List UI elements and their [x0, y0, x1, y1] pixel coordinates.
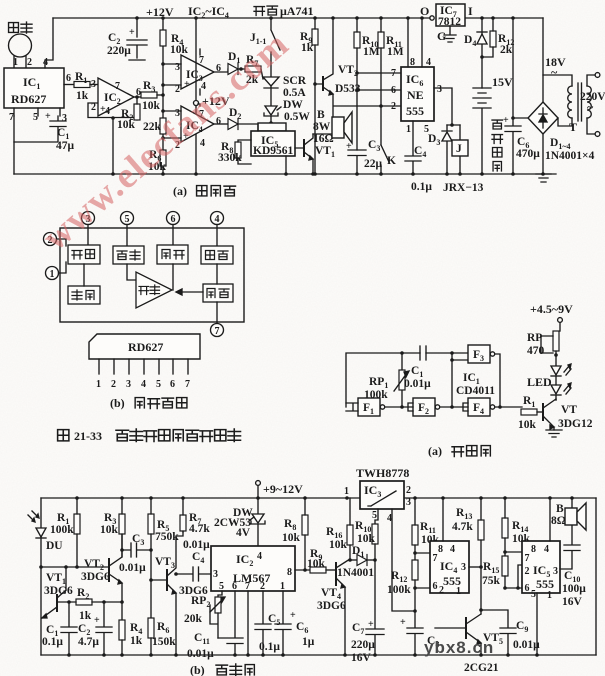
IC7 7812 regulator [420, 4, 473, 28]
svg-text:8: 8 [438, 544, 443, 555]
svg-text:0.5W: 0.5W [284, 111, 310, 123]
wire +12V top rail [53, 16, 543, 20]
amplifier triangle (fang da) [136, 272, 172, 308]
svg-text:4V: 4V [236, 527, 251, 539]
nand gate F3 [468, 345, 495, 363]
svg-text:5: 5 [156, 379, 161, 390]
svg-text:3: 3 [213, 569, 218, 580]
svg-text:1M: 1M [363, 46, 380, 58]
svg-text:DU: DU [46, 540, 63, 552]
ground symbol mains [536, 174, 551, 182]
resistor R5 750k [148, 498, 179, 618]
svg-text:3: 3 [62, 113, 67, 124]
svg-text:0.1μ: 0.1μ [259, 641, 280, 653]
capacitor C11 0.01u [187, 591, 243, 660]
speaker B 8ohm (rx) [551, 498, 586, 530]
svg-text:10k: 10k [170, 44, 189, 56]
battery 15V backup [473, 57, 513, 174]
svg-text:4: 4 [426, 57, 431, 68]
resistor R7 2k [245, 54, 263, 86]
svg-text:4: 4 [141, 379, 146, 390]
svg-text:I: I [468, 4, 473, 18]
svg-text:100μ: 100μ [562, 583, 586, 595]
caption (a) circuit diagram [173, 184, 236, 198]
capacitor C3 22u [346, 139, 383, 174]
svg-text:10k: 10k [282, 532, 301, 544]
svg-text:10k: 10k [100, 524, 119, 536]
transistor VT2 (rx) 3DG6 [81, 535, 122, 620]
op-amp IC2 [91, 78, 141, 117]
package pins 1-7 [96, 359, 190, 390]
ground pin G of IC7 [437, 26, 456, 43]
svg-text:O: O [420, 4, 429, 18]
svg-text:KD9561: KD9561 [253, 145, 294, 157]
wire 567 pin7 ground [247, 591, 249, 655]
capacitor C7 220u 16V [351, 560, 384, 664]
svg-text:0.1μ: 0.1μ [411, 181, 432, 193]
svg-text:1M: 1M [387, 46, 404, 58]
svg-text:6: 6 [171, 214, 176, 225]
wire transmitter top [346, 351, 470, 407]
svg-text:16V: 16V [562, 596, 583, 608]
svg-text:NE: NE [407, 88, 424, 102]
resistor R14 10k [502, 498, 531, 556]
svg-text:3: 3 [437, 84, 442, 95]
svg-text:6: 6 [391, 85, 396, 96]
svg-text:+: + [346, 141, 352, 152]
resistor R12 100k (rx) [387, 560, 418, 611]
IC6 NE555 [391, 57, 442, 135]
svg-text:5: 5 [531, 589, 536, 600]
diode D3 [428, 125, 452, 174]
resistor R9 10k (rx) [307, 548, 336, 573]
node pin5 circle [121, 212, 134, 247]
zener DW 2CW53 4V [214, 498, 265, 546]
svg-text:4: 4 [257, 551, 262, 562]
diode D1 [228, 51, 245, 75]
wire pin7 to ground [13, 116, 15, 174]
svg-text:0.01μ: 0.01μ [119, 562, 146, 574]
relay J JRX-13 [452, 125, 468, 174]
resistor R4 10k [160, 30, 189, 56]
svg-text:0.5A: 0.5A [283, 87, 306, 99]
svg-text:10k: 10k [117, 119, 136, 131]
svg-text:0.01μ: 0.01μ [513, 639, 540, 651]
ground transmitter [546, 430, 562, 437]
wire IC5 pin5 ground [536, 593, 538, 655]
svg-text:4.7k: 4.7k [452, 521, 473, 533]
svg-text:1: 1 [344, 486, 349, 497]
svg-text:3DG6: 3DG6 [44, 585, 73, 597]
diode D1 1N4001 (rx) [337, 545, 375, 579]
svg-text:21-33: 21-33 [74, 429, 102, 443]
node pin6 circle [167, 212, 180, 246]
svg-text:8Ω: 8Ω [551, 515, 566, 527]
svg-text:J: J [456, 143, 462, 155]
transistor VT4 3DG6 [317, 559, 350, 655]
transistor VT5 2CG21 [435, 614, 503, 674]
transistor VT1 [295, 134, 335, 174]
svg-text:1: 1 [456, 586, 461, 597]
node pin4 circle [211, 212, 224, 247]
IC4 555 [430, 498, 469, 597]
wire IC4 pin3 [469, 565, 483, 569]
svg-text:μA741: μA741 [280, 4, 313, 18]
resistor R12 2k [480, 18, 514, 59]
wire IC5 pins 7 2 6 [503, 550, 522, 590]
svg-text:4.7k: 4.7k [189, 523, 210, 535]
svg-text:TWH8778: TWH8778 [356, 466, 409, 480]
wire IC5 to ground [285, 156, 287, 174]
pin numbers 1 2 4 [13, 57, 48, 68]
speaker B [313, 112, 352, 143]
svg-text:10k: 10k [307, 558, 326, 570]
label 220V mains [580, 91, 605, 114]
svg-text:+: + [184, 79, 190, 90]
wire F3 output to F4 output node [495, 354, 522, 409]
resistor R3 10k [141, 80, 165, 112]
wire regulator to delay [216, 264, 218, 284]
svg-text:5: 5 [125, 214, 130, 225]
svg-text:0.01μ: 0.01μ [404, 378, 431, 390]
svg-text:1: 1 [50, 269, 55, 280]
label B 8W [313, 109, 331, 133]
svg-text:1N4001×4: 1N4001×4 [545, 150, 595, 162]
svg-text:3DG6: 3DG6 [317, 600, 346, 612]
switch K [381, 145, 396, 174]
nand gate F2 [385, 398, 440, 416]
wire delay to pin7 [216, 302, 218, 324]
resistor R16 10k [326, 498, 353, 562]
svg-text:3: 3 [91, 79, 96, 90]
node +9~12V supply [256, 481, 303, 498]
svg-text:5: 5 [33, 112, 38, 123]
caption (a) transmitter [428, 444, 490, 458]
block diagram outer frame [60, 228, 244, 322]
wire R1 to IC2 [90, 84, 98, 86]
caption (b) receiver [190, 663, 254, 676]
svg-text:+: + [503, 115, 509, 126]
IC3 TWH8778 [344, 481, 411, 524]
wire delay input arrow [176, 289, 203, 295]
wire IC3 pin4 output [392, 509, 417, 613]
capacitor C2 4.7u (rx) [78, 602, 112, 657]
svg-text:+: + [100, 104, 106, 115]
wire F3 F4 input tie [450, 353, 454, 409]
svg-text:4: 4 [105, 106, 110, 117]
svg-text:6: 6 [170, 379, 175, 390]
svg-text:1: 1 [13, 57, 18, 68]
IC2 LM567 [211, 546, 295, 592]
wire bus x163 [162, 18, 164, 174]
svg-text:+: + [129, 27, 135, 38]
resistor R3 10k (rx) [100, 498, 125, 557]
wire 18V line [543, 18, 566, 102]
transistor VT2 D533 [315, 18, 361, 117]
potentiometer RP1 100k [364, 353, 409, 407]
svg-text:1μ: 1μ [302, 636, 315, 648]
svg-text:470μ: 470μ [516, 148, 540, 160]
caption (b) block diagram [110, 396, 187, 410]
wire detect to amp [127, 264, 136, 280]
svg-text:LED: LED [527, 375, 552, 389]
svg-text:~: ~ [587, 100, 594, 114]
svg-text:22μ: 22μ [364, 158, 383, 170]
svg-text:1: 1 [96, 379, 101, 390]
wire right edge [595, 498, 597, 655]
node pin2 circle [44, 233, 67, 247]
wire RF to oscillator [83, 264, 85, 286]
svg-text:10k: 10k [518, 419, 537, 431]
wire IC4 inputs [161, 109, 181, 140]
svg-text:1k: 1k [130, 635, 143, 647]
capacitor C5 0.1u (rx) [255, 591, 280, 655]
svg-text:16Ω: 16Ω [313, 133, 334, 145]
wire IC2 feedback loop [88, 103, 137, 174]
svg-text:7: 7 [185, 379, 190, 390]
svg-text:3: 3 [461, 562, 466, 573]
resistor R1 1k [74, 71, 90, 102]
wire 555 pin7 pin6 pin2 [334, 73, 401, 106]
svg-text:2: 2 [391, 101, 396, 112]
resistor R8 10k (rx) [282, 498, 308, 570]
block RF (she pin) [68, 245, 100, 264]
svg-text:16V: 16V [351, 652, 372, 664]
svg-text:10k: 10k [142, 100, 161, 112]
transistor VT3 3DG6 [149, 532, 208, 655]
capacitor C9 0.01u [479, 608, 540, 655]
svg-text:0.01μ: 0.01μ [187, 648, 214, 660]
svg-text:~: ~ [551, 65, 558, 79]
svg-text:SCR: SCR [283, 75, 307, 87]
resistor R10 1M [354, 18, 380, 150]
resistor R2 1k (rx) [57, 587, 124, 622]
svg-text:ybx8.cn: ybx8.cn [424, 638, 494, 657]
svg-text:VT: VT [561, 404, 577, 416]
svg-text:7: 7 [525, 553, 530, 564]
pin 6 stub [64, 73, 74, 85]
antenna [9, 34, 32, 68]
svg-text:4: 4 [544, 544, 549, 555]
svg-text:75k: 75k [482, 575, 501, 587]
wire left edge [40, 498, 42, 655]
capacitor C4 0.1u [405, 121, 432, 193]
svg-text:RP: RP [527, 332, 542, 344]
node +12V mid terminal [194, 18, 230, 174]
svg-text:6: 6 [66, 73, 71, 84]
watermark elecfans diagonal [35, 23, 494, 657]
resistor R4 1k (rx) [119, 620, 143, 655]
svg-text:7: 7 [391, 68, 396, 79]
svg-text:100k: 100k [387, 584, 411, 596]
svg-text:B: B [317, 109, 325, 121]
svg-text:220μ: 220μ [351, 639, 375, 651]
svg-text:8: 8 [410, 57, 415, 68]
svg-text:+9~12V: +9~12V [263, 482, 303, 496]
svg-text:2CG21: 2CG21 [464, 662, 499, 674]
nand gate F1 [346, 398, 385, 416]
svg-text:DW: DW [283, 99, 303, 111]
svg-text:4.7μ: 4.7μ [78, 636, 99, 648]
svg-text:555: 555 [406, 104, 424, 118]
svg-text:3: 3 [406, 497, 411, 508]
svg-text:1k: 1k [79, 610, 92, 622]
RD627 package outline [89, 334, 200, 359]
capacitor C8 [400, 611, 439, 655]
resistor R1 100k (rx) [50, 498, 80, 567]
caption figure 21-33 title [58, 429, 241, 443]
svg-text:(a): (a) [173, 184, 187, 198]
op-amp IC3 [175, 49, 221, 95]
svg-text:7: 7 [433, 553, 438, 564]
bridge rectifier D1-4 [511, 102, 558, 174]
label D1-4 1N4001x4 [545, 137, 595, 162]
wire pin4 to +12V rail [45, 18, 53, 68]
resistor R6 150k [148, 618, 176, 655]
svg-text:IC2~IC4: IC2~IC4 [188, 4, 229, 20]
svg-text:150k: 150k [152, 636, 176, 648]
resistor R10 10k (rx) [355, 509, 378, 562]
label IC1 CD4011 [456, 372, 495, 397]
svg-text:10k: 10k [357, 533, 376, 545]
capacitor C10 100u 16V [560, 525, 586, 608]
svg-text:1: 1 [547, 590, 552, 601]
node pin7 circle [211, 324, 224, 338]
transistor VT1 (rx) 3DG6 [42, 567, 73, 618]
svg-text:+: + [94, 615, 100, 626]
block detect (jian ce) [113, 246, 144, 264]
svg-text:7: 7 [9, 112, 14, 123]
wire 555 pin3 [434, 88, 460, 127]
transformer T [543, 73, 600, 137]
resistor R13 4.7k [452, 498, 484, 614]
LED pair indicator [527, 364, 571, 400]
resistor R2 10k [117, 97, 140, 131]
diode D4 [464, 18, 487, 57]
resistor R7 4.7k (rx) [180, 498, 210, 535]
node IC2 output [134, 95, 141, 99]
capacitor C2 220u [107, 18, 147, 60]
wire receiver top rail [41, 496, 596, 500]
svg-text:(b): (b) [190, 663, 205, 676]
svg-text:CD4011: CD4011 [456, 385, 495, 397]
svg-text:2: 2 [406, 485, 411, 496]
svg-text:+4.5~9V: +4.5~9V [530, 302, 573, 316]
zener DW 0.5W [264, 88, 310, 125]
svg-text:3DG12: 3DG12 [558, 418, 593, 430]
nand gate F4 [440, 398, 495, 416]
label antenna [9, 22, 32, 33]
svg-text:6: 6 [433, 581, 438, 592]
svg-text:330k: 330k [218, 152, 242, 164]
capacitor C3 0.01u (rx) [119, 533, 153, 574]
svg-text:0.01μ: 0.01μ [183, 539, 210, 551]
block delay (yan shi) [203, 284, 233, 302]
svg-text:4: 4 [387, 513, 392, 524]
resistor R9 1k [300, 18, 318, 174]
capacitor C6 470u [503, 18, 540, 174]
wire IC3 inputs [161, 62, 181, 87]
resistor R1 10k (tx) [518, 395, 543, 431]
wire receiver bottom rail [41, 653, 596, 657]
svg-text:G: G [437, 29, 446, 43]
resistor R11 1M [378, 18, 404, 145]
capacitor C1 47u [14, 116, 75, 152]
pins 7 5 3 stubs [9, 108, 67, 124]
block oscillator (zhen dang) [68, 286, 100, 304]
capacitor C1 0.01u (tx) [404, 346, 431, 390]
svg-text:1k: 1k [301, 42, 314, 54]
resistor R11 10k (rx) [412, 498, 440, 560]
node pin1 circle [46, 262, 67, 280]
svg-text:K: K [387, 155, 396, 167]
svg-text:47μ: 47μ [56, 140, 75, 152]
svg-text:+: + [290, 610, 296, 621]
wire 555 pins 8 4 to rail [408, 18, 422, 67]
resistor 22k [143, 118, 166, 134]
svg-text:555: 555 [536, 577, 554, 591]
svg-text:RD627: RD627 [11, 92, 46, 106]
label +4.5~9V [530, 302, 573, 331]
svg-text:+: + [400, 617, 406, 628]
wire limiter to amp output [172, 264, 174, 290]
IC5 555 [522, 498, 560, 601]
svg-text:8: 8 [287, 567, 292, 578]
potentiometer RP2 20k [184, 591, 225, 638]
transistor VT 3DG12 [543, 399, 593, 430]
svg-text:2: 2 [111, 379, 116, 390]
svg-text:1: 1 [406, 124, 411, 135]
svg-text:2: 2 [27, 57, 32, 68]
op-amp IC4 [175, 104, 221, 151]
resistor R15 75k [482, 556, 508, 588]
svg-text:3: 3 [126, 379, 131, 390]
svg-text:(a): (a) [428, 444, 442, 458]
svg-text:10k: 10k [329, 539, 348, 551]
resistor R8 330k [218, 140, 251, 164]
wire 567 pin8 [295, 568, 310, 572]
block limiter (xian fu) [157, 245, 188, 264]
svg-text:15V: 15V [492, 75, 513, 89]
block regulator (wen ya) [201, 246, 233, 264]
svg-text:100k: 100k [364, 389, 388, 401]
svg-text:3: 3 [553, 566, 558, 577]
resistor RP 470 [527, 331, 559, 366]
svg-text:1N4001: 1N4001 [337, 567, 374, 579]
wire IC3 output [214, 69, 228, 72]
capacitor C6 1u (rx) [275, 591, 315, 655]
node pin3 circle [82, 212, 95, 246]
svg-text:3DG6: 3DG6 [81, 571, 110, 583]
wire ground bottom rail [14, 172, 556, 176]
switch J1-1 [250, 18, 280, 77]
svg-text:(b): (b) [110, 396, 125, 410]
svg-text:7: 7 [115, 81, 120, 92]
svg-text:RD627: RD627 [128, 340, 163, 354]
svg-text:2k: 2k [500, 44, 513, 56]
photodiode DU [28, 511, 63, 552]
wire IC4 pins 7 6 2 [413, 551, 430, 590]
svg-text:100k: 100k [50, 524, 74, 536]
svg-text:7: 7 [215, 326, 220, 337]
svg-text:4: 4 [450, 544, 455, 555]
resistor R6 10k [148, 149, 167, 173]
svg-text:1k: 1k [76, 90, 89, 102]
svg-text:0.1μ: 0.1μ [42, 636, 63, 648]
capacitor C1 0.1u (rx) [42, 602, 77, 657]
svg-text:B: B [556, 503, 564, 515]
svg-text:470: 470 [527, 345, 545, 357]
